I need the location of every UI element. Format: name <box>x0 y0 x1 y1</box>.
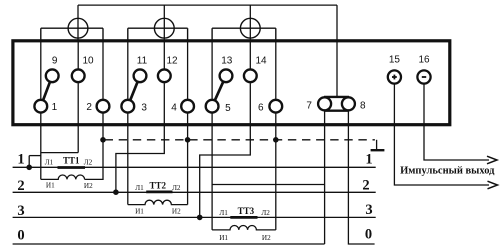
arrow impulse lower <box>488 181 498 189</box>
node phase A tap <box>26 165 32 171</box>
svg-text:14: 14 <box>255 55 267 66</box>
terminal 9 <box>46 69 59 82</box>
terminal 7 <box>318 97 331 110</box>
svg-text:Л2: Л2 <box>172 184 181 192</box>
ground symbol at dashed end <box>376 140 378 150</box>
wire row phase 3 <box>13 216 376 218</box>
terminal 5 <box>206 100 219 113</box>
svg-text:Л1: Л1 <box>135 184 144 192</box>
wire terminal 4 down to CT2 secondary <box>187 113 189 204</box>
wire row phase 1 <box>13 166 376 168</box>
wire box top to terminal 3 <box>127 41 129 99</box>
terminal 1 <box>34 100 47 113</box>
wire terminal 16 to impulse output <box>424 84 489 160</box>
svg-text:Л1: Л1 <box>219 209 228 217</box>
node phase B tap <box>113 189 119 195</box>
svg-text:Л2: Л2 <box>261 209 270 217</box>
svg-text:0: 0 <box>365 227 372 243</box>
svg-text:ТТ3: ТТ3 <box>238 206 255 216</box>
svg-text:ТТ1: ТТ1 <box>63 155 80 165</box>
link terminal 13 to 5 <box>215 82 224 101</box>
wire box top to terminal 1 <box>40 41 42 99</box>
svg-text:10: 10 <box>82 55 94 66</box>
dashed test-box boundary <box>105 139 375 141</box>
voltage link circle 3 (crosshair) <box>212 18 276 40</box>
svg-text:И2: И2 <box>84 182 93 190</box>
wire bus drop to link 3 <box>249 5 251 41</box>
svg-text:2: 2 <box>362 178 369 194</box>
CT2 secondary coil <box>128 200 188 204</box>
node dashed-terminal 2 <box>100 137 106 143</box>
CT3 primary bar <box>230 216 257 219</box>
svg-text:9: 9 <box>52 55 58 66</box>
svg-text:5: 5 <box>225 103 231 114</box>
svg-text:8: 8 <box>360 101 366 112</box>
svg-text:И1: И1 <box>219 234 228 242</box>
wire box top to terminal 14 <box>249 41 251 69</box>
wire CT3 secondary to neutral drop <box>212 184 325 186</box>
terminal 14 <box>244 69 257 82</box>
CT2 primary bar <box>146 190 172 193</box>
svg-text:12: 12 <box>166 55 178 66</box>
svg-text:Импульсный выход: Импульсный выход <box>400 165 495 176</box>
svg-text:1: 1 <box>365 152 372 168</box>
terminal 12 <box>158 69 171 82</box>
svg-text:11: 11 <box>137 55 148 66</box>
svg-text:6: 6 <box>258 103 264 114</box>
wire terminal 15 to impulse output <box>394 84 489 185</box>
wire terminal 7 to neutral line <box>324 111 326 244</box>
svg-text:3: 3 <box>17 203 24 219</box>
wire bus drop to link 1 <box>77 5 79 41</box>
wire box top to terminal 5 <box>211 41 213 99</box>
link terminal 11 to 3 <box>130 82 137 101</box>
svg-text:7: 7 <box>306 101 312 112</box>
terminal 15 <box>388 70 401 83</box>
wire terminal 5 down to CT3 secondary <box>211 113 213 229</box>
voltage link circle 2 (crosshair) <box>128 18 188 40</box>
node dashed-terminal 4 <box>185 137 191 143</box>
terminal 13 <box>220 69 233 82</box>
wire terminal 12 down <box>116 83 164 192</box>
CT1 secondary coil <box>41 175 85 179</box>
terminals 7-8 jumper block <box>324 96 349 98</box>
wire phase A tap vertical <box>28 156 30 168</box>
meter terminal box <box>13 41 450 125</box>
svg-text:4: 4 <box>171 102 177 113</box>
wire box top to terminal 12 <box>163 41 165 69</box>
svg-text:15: 15 <box>389 55 401 66</box>
CT1 primary bar <box>58 166 86 169</box>
terminal 11 <box>134 69 147 82</box>
terminal 2 <box>97 100 110 113</box>
wire terminal 1 down to CT1 secondary <box>40 113 42 179</box>
minus sign in terminal 16 <box>422 76 426 78</box>
wire box top to terminal 2 <box>102 41 104 99</box>
wire top bus <box>78 4 337 6</box>
wire terminal 2 down to CT1 secondary <box>85 113 103 179</box>
terminal 6 <box>269 100 282 113</box>
terminal 10 <box>72 69 85 82</box>
CT3 secondary coil <box>212 226 276 230</box>
wire box top to terminal 10 <box>77 41 79 69</box>
voltage link circle 1 (crosshair) <box>41 18 103 40</box>
svg-text:0: 0 <box>17 228 24 244</box>
wire terminal 14 down <box>200 83 251 217</box>
wire terminal 8 to neutral out <box>348 111 374 244</box>
wire row phase 2 <box>13 191 376 193</box>
svg-text:Л1: Л1 <box>45 159 54 167</box>
svg-text:И2: И2 <box>172 207 181 215</box>
wire terminal 10 down <box>77 83 79 153</box>
svg-text:3: 3 <box>365 202 372 218</box>
svg-text:1: 1 <box>52 102 58 113</box>
svg-text:13: 13 <box>221 55 233 66</box>
wire bus drop to terminals 7-8 <box>336 5 338 97</box>
plus sign in terminal 15 <box>392 75 397 80</box>
svg-text:Л2: Л2 <box>84 159 93 167</box>
wire link terminals 1-10 <box>41 152 78 154</box>
terminal 16 <box>417 70 430 83</box>
svg-text:2: 2 <box>86 102 92 113</box>
arrow impulse upper <box>487 156 497 164</box>
svg-text:2: 2 <box>17 178 24 194</box>
node phase C tap <box>197 215 203 221</box>
wire row neutral left <box>13 243 325 245</box>
terminal 4 <box>181 100 194 113</box>
wire terminal 3 down to CT2 secondary <box>127 113 129 204</box>
svg-text:3: 3 <box>141 103 147 114</box>
svg-text:ТТ2: ТТ2 <box>149 181 166 191</box>
wire box top to terminal 6 <box>275 41 277 99</box>
svg-text:1: 1 <box>17 152 24 168</box>
svg-text:И1: И1 <box>46 182 55 190</box>
terminal 3 <box>121 100 134 113</box>
wire terminal 6 down to CT3 secondary <box>275 113 277 229</box>
terminal 8 <box>342 97 355 110</box>
svg-text:И2: И2 <box>262 234 271 242</box>
svg-text:И1: И1 <box>135 207 144 215</box>
wire box top to terminal 4 <box>187 41 189 99</box>
wire bus drop to link 2 <box>163 5 165 41</box>
svg-text:16: 16 <box>418 55 430 66</box>
wire phase A tap horizontal <box>29 155 41 157</box>
link terminal 9 to 1 <box>43 82 50 100</box>
node dashed-terminal 6 <box>273 137 279 143</box>
